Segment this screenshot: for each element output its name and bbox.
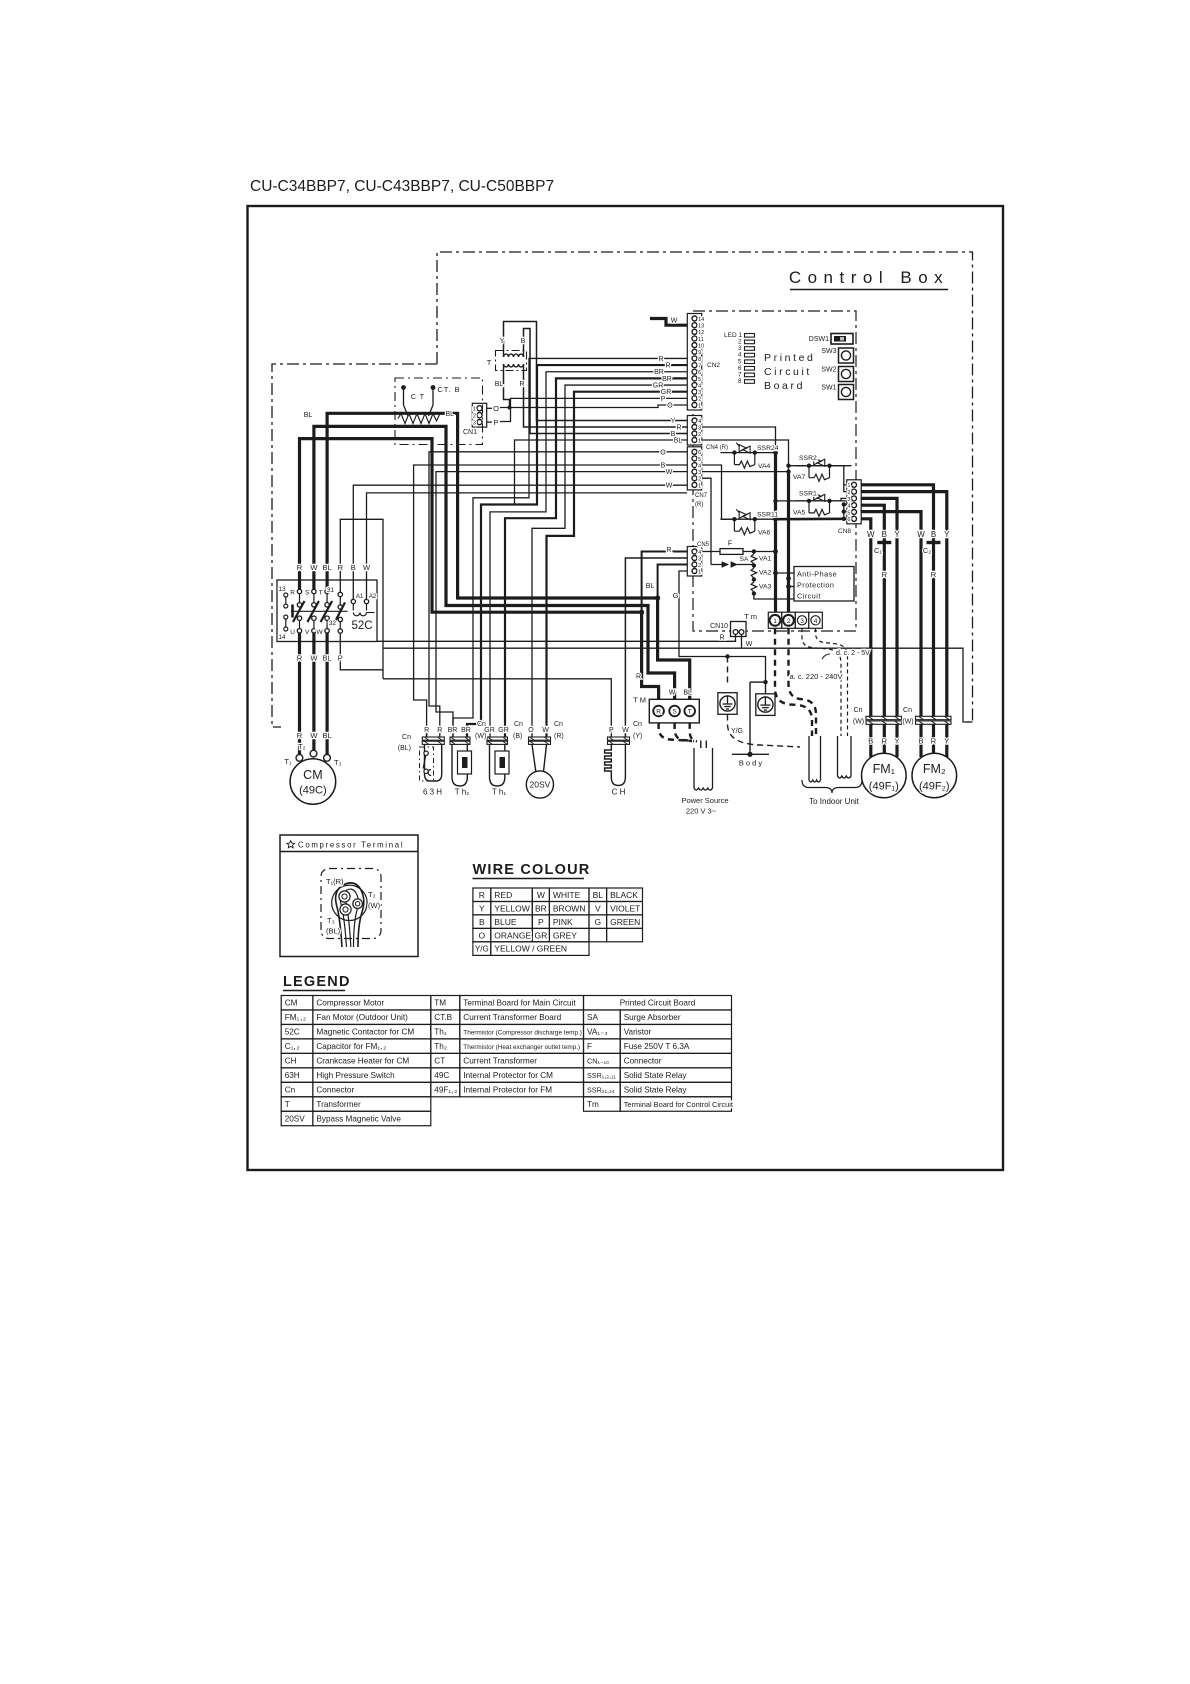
svg-text:R: R bbox=[424, 727, 429, 734]
wire: CN8 pin5 to fan motor lead W bbox=[861, 512, 921, 717]
crankcase heater CH bbox=[605, 737, 630, 786]
svg-text:P: P bbox=[493, 418, 498, 427]
svg-text:3: 3 bbox=[698, 390, 701, 396]
solid state relay SSR11 with varistor VA6 bbox=[720, 509, 776, 535]
wire Y : transformer to CN4 pin4 bbox=[504, 322, 688, 421]
wire W (thick): TM S - 52C bbox=[314, 426, 675, 706]
LEGEND heading bbox=[283, 990, 345, 992]
svg-text:C₁: C₁ bbox=[874, 546, 882, 555]
svg-text:Y/G: Y/G bbox=[475, 945, 489, 954]
svg-text:W: W bbox=[666, 469, 673, 476]
wire O : CN7 pin6 to 63H right bbox=[429, 452, 687, 738]
surge absorber SA bbox=[711, 562, 754, 567]
svg-text:10: 10 bbox=[698, 344, 704, 350]
svg-text:G: G bbox=[594, 917, 601, 927]
wire: CN2 pin3 staircase to component bbox=[547, 392, 688, 738]
WIRE COLOUR heading bbox=[473, 878, 585, 880]
svg-text:4: 4 bbox=[814, 618, 818, 625]
svg-text:(49C): (49C) bbox=[299, 785, 327, 797]
svg-text:Cn: Cn bbox=[633, 721, 642, 728]
svg-text:T: T bbox=[487, 358, 492, 367]
svg-text:W: W bbox=[310, 563, 318, 572]
svg-text:R: R bbox=[656, 709, 661, 716]
brace To Indoor Unit bbox=[802, 780, 862, 793]
svg-text:T h₂: T h₂ bbox=[455, 788, 470, 797]
svg-text:R: R bbox=[519, 381, 524, 388]
svg-text:(W): (W) bbox=[475, 733, 486, 740]
svg-text:High Pressure Switch: High Pressure Switch bbox=[316, 1071, 395, 1080]
svg-text:Compressor Terminal: Compressor Terminal bbox=[298, 841, 404, 850]
svg-text:GREY: GREY bbox=[553, 930, 577, 940]
wire: L2 to anti-phase circuit bbox=[789, 586, 795, 588]
svg-text:B: B bbox=[882, 530, 887, 539]
wire L1 trunk (thick) to Tm terminal 1 bbox=[773, 450, 778, 614]
svg-text:63H: 63H bbox=[285, 1071, 300, 1080]
svg-text:F: F bbox=[587, 1042, 592, 1051]
svg-text:LEGEND: LEGEND bbox=[283, 974, 351, 990]
wire W : CN7 pin3 to Th2 left bbox=[436, 472, 687, 738]
svg-text:G: G bbox=[673, 591, 679, 600]
wire G : CN5 pin1 to earth point bbox=[679, 571, 768, 684]
svg-text:20SV: 20SV bbox=[285, 1114, 306, 1123]
svg-text:VA₁₋₃: VA₁₋₃ bbox=[587, 1028, 608, 1037]
varistor VA1 bbox=[751, 549, 757, 565]
svg-text:3: 3 bbox=[698, 470, 701, 476]
svg-text:W: W bbox=[537, 890, 545, 900]
svg-text:31: 31 bbox=[327, 587, 335, 594]
svg-text:CN5: CN5 bbox=[697, 542, 710, 548]
svg-text:CN1: CN1 bbox=[463, 429, 477, 436]
label d.c. 2-5V bbox=[822, 654, 830, 659]
connector Cn (W) for FM1 bbox=[866, 716, 902, 724]
svg-text:T h₁: T h₁ bbox=[492, 788, 506, 797]
svg-text:Cn: Cn bbox=[514, 721, 523, 728]
svg-text:6: 6 bbox=[698, 370, 701, 376]
terminal board Tm (control circuit) bbox=[768, 612, 822, 628]
svg-text:Fan Motor (Outdoor Unit): Fan Motor (Outdoor Unit) bbox=[316, 1013, 408, 1022]
indoor unit cable 1 bbox=[809, 736, 821, 782]
svg-text:d. c. 2 - 5V: d. c. 2 - 5V bbox=[836, 650, 870, 657]
capacitor C2 bbox=[927, 541, 941, 544]
varistor VA2 bbox=[751, 563, 757, 579]
wire P continues to CH bbox=[383, 679, 611, 738]
svg-text:W: W bbox=[917, 530, 925, 539]
wire W : CN5 pin3 to crankcase heater bbox=[625, 558, 687, 738]
wire B : CN7 pin4 left riser to 63H left bbox=[414, 465, 687, 738]
svg-text:WIRE COLOUR: WIRE COLOUR bbox=[473, 862, 591, 878]
svg-text:BL: BL bbox=[683, 690, 692, 697]
svg-text:6: 6 bbox=[847, 517, 850, 523]
connector Cn (W) for FM2 bbox=[916, 716, 952, 724]
thermistor Th1 bbox=[487, 737, 509, 786]
svg-text:S: S bbox=[672, 709, 677, 716]
varistor VA3 bbox=[751, 577, 757, 595]
wire: SSR11 row to pin6 of CN8 (thick) bbox=[776, 502, 848, 521]
svg-text:BR: BR bbox=[448, 727, 458, 734]
svg-text:Y: Y bbox=[479, 903, 485, 913]
svg-text:5: 5 bbox=[847, 510, 850, 516]
bypass magnetic valve 20SV bbox=[526, 737, 553, 798]
svg-text:32: 32 bbox=[329, 620, 337, 627]
wire: CN8 pin1 to fan motor lead B bbox=[861, 485, 934, 717]
svg-text:R: R bbox=[931, 737, 937, 746]
svg-text:Y/G: Y/G bbox=[731, 728, 743, 735]
svg-text:A2: A2 bbox=[369, 594, 377, 600]
svg-text:Varistor: Varistor bbox=[624, 1028, 652, 1037]
svg-text:2: 2 bbox=[698, 477, 701, 483]
svg-text:R: R bbox=[290, 590, 295, 597]
svg-text:VA7: VA7 bbox=[793, 474, 806, 481]
svg-text:GREEN: GREEN bbox=[610, 917, 640, 927]
svg-text:SSR11: SSR11 bbox=[757, 512, 778, 519]
svg-text:VIOLET: VIOLET bbox=[610, 903, 640, 913]
svg-text:BL: BL bbox=[646, 583, 655, 590]
svg-text:Cn: Cn bbox=[854, 707, 863, 714]
svg-text:O: O bbox=[493, 404, 499, 413]
wire: CN4 pin1 to L2 bbox=[702, 440, 789, 472]
52C wire labels bbox=[0, 0, 1, 1]
svg-text:YELLOW / GREEN: YELLOW / GREEN bbox=[494, 944, 567, 954]
svg-text:YELLOW: YELLOW bbox=[494, 903, 529, 913]
svg-text:Current Transformer Board: Current Transformer Board bbox=[463, 1013, 561, 1022]
svg-text:1: 1 bbox=[473, 407, 476, 413]
svg-text:Current Transformer: Current Transformer bbox=[463, 1057, 537, 1066]
svg-text:Terminal Board for Control Cir: Terminal Board for Control Circuit bbox=[624, 1100, 733, 1109]
wire P : 52C contact 32 to crankcase heater bbox=[340, 633, 383, 670]
wire: SSR2 row to CN8 pin2 bbox=[786, 464, 847, 492]
svg-text:Cn: Cn bbox=[903, 707, 912, 714]
solid state relay SSR24 with varistor VA4 bbox=[720, 443, 776, 469]
fan lead labels W B Y bbox=[0, 0, 1, 1]
svg-text:ORANGE: ORANGE bbox=[494, 930, 531, 940]
compressor motor CM (49C) bbox=[290, 750, 336, 804]
connector CN4 (R) (4-pin) bbox=[687, 416, 701, 446]
wire B : 52C coil A1 to CN7 pin1 bbox=[353, 485, 687, 599]
svg-text:FM₁: FM₁ bbox=[873, 762, 895, 776]
svg-text:V: V bbox=[305, 629, 310, 636]
dashed d.c. cable from Tm 3 bbox=[802, 628, 841, 736]
svg-text:4: 4 bbox=[698, 550, 701, 556]
solid state relay SSR2 with varistor VA7 bbox=[795, 456, 852, 482]
svg-text:Thermistor (Compressor dischar: Thermistor (Compressor discharge temp.) bbox=[463, 1030, 582, 1037]
svg-text:1: 1 bbox=[698, 438, 701, 444]
svg-text:W: W bbox=[542, 727, 549, 734]
svg-text:B: B bbox=[931, 530, 936, 539]
power source cable (dashed leads) bbox=[659, 723, 697, 741]
svg-text:Solid State Relay: Solid State Relay bbox=[624, 1086, 688, 1095]
Control Box boundary (dash-dot) bbox=[272, 252, 973, 727]
svg-text:CN₁₋₁₀: CN₁₋₁₀ bbox=[587, 1057, 609, 1066]
svg-text:O: O bbox=[479, 930, 486, 940]
svg-text:a. c. 220 - 240V: a. c. 220 - 240V bbox=[790, 672, 843, 681]
svg-text:Cn: Cn bbox=[554, 721, 563, 728]
fuse F 250V T 6.3A bbox=[702, 549, 776, 555]
svg-text:Cn: Cn bbox=[402, 734, 411, 741]
power source cable symbol bbox=[694, 741, 713, 791]
svg-text:49F₁, ₂: 49F₁, ₂ bbox=[434, 1086, 457, 1095]
svg-text:R: R bbox=[666, 547, 671, 554]
svg-text:3: 3 bbox=[698, 425, 701, 431]
svg-text:14: 14 bbox=[698, 317, 704, 323]
svg-text:6: 6 bbox=[698, 450, 701, 456]
svg-text:BL: BL bbox=[446, 411, 455, 418]
svg-text:220 V 3~: 220 V 3~ bbox=[686, 807, 717, 816]
svg-text:O: O bbox=[660, 449, 666, 456]
svg-text:Anti-Phase: Anti-Phase bbox=[797, 570, 837, 579]
svg-text:7: 7 bbox=[698, 363, 701, 369]
wire R W BL : 52C to compressor motor bbox=[300, 633, 328, 754]
svg-text:T M: T M bbox=[633, 696, 646, 705]
wire: CN4 pin3 to SSR24/L1 bbox=[702, 427, 776, 453]
capacitor C1 bbox=[877, 541, 891, 544]
Control Box label bbox=[790, 289, 948, 291]
svg-text:BL: BL bbox=[323, 731, 332, 740]
body ground bbox=[732, 752, 769, 757]
svg-text:R: R bbox=[676, 425, 681, 432]
wire W : 52C coil A2 to CN5 pin3 bbox=[367, 493, 688, 599]
svg-text:CH: CH bbox=[285, 1057, 297, 1066]
svg-text:T₂: T₂ bbox=[298, 742, 306, 751]
svg-text:1: 1 bbox=[847, 483, 850, 489]
svg-text:U: U bbox=[290, 629, 295, 636]
svg-text:GR: GR bbox=[534, 930, 547, 940]
svg-text:T₃: T₃ bbox=[327, 916, 335, 925]
svg-text:T: T bbox=[285, 1100, 290, 1109]
DIP switch DSW1 bbox=[831, 334, 853, 345]
svg-text:Tm: Tm bbox=[587, 1100, 599, 1109]
svg-text:SSR1: SSR1 bbox=[799, 491, 817, 498]
svg-text:R: R bbox=[931, 570, 937, 579]
fan motor FM1 (49F1) bbox=[862, 753, 907, 798]
Printed Circuit Board boundary (dash-dot) bbox=[693, 311, 856, 631]
svg-text:B: B bbox=[351, 563, 356, 572]
svg-text:2: 2 bbox=[698, 432, 701, 438]
wire: CN7 pin4... SSR11 feed bbox=[702, 465, 734, 519]
svg-text:BLUE: BLUE bbox=[494, 917, 517, 927]
svg-text:(49F₁): (49F₁) bbox=[869, 781, 899, 793]
compressor terminal detail box bbox=[280, 835, 418, 957]
svg-text:SW1: SW1 bbox=[821, 385, 836, 392]
svg-text:CN2: CN2 bbox=[707, 362, 720, 369]
svg-text:S: S bbox=[305, 590, 310, 597]
svg-text:T₂: T₂ bbox=[368, 890, 376, 899]
svg-text:Surge Absorber: Surge Absorber bbox=[624, 1013, 681, 1022]
wire BL : transformer secondary joins O line bbox=[504, 370, 512, 410]
svg-text:4: 4 bbox=[847, 504, 850, 510]
svg-text:(49F₂): (49F₂) bbox=[919, 781, 950, 793]
svg-text:VA4: VA4 bbox=[758, 463, 771, 470]
svg-text:CN8: CN8 bbox=[838, 528, 851, 535]
svg-text:Connector: Connector bbox=[316, 1086, 354, 1095]
svg-text:O: O bbox=[528, 727, 534, 734]
svg-text:W: W bbox=[746, 641, 753, 648]
svg-text:CT. B: CT. B bbox=[437, 385, 460, 394]
svg-text:(W): (W) bbox=[853, 719, 864, 726]
svg-text:R: R bbox=[882, 570, 888, 579]
svg-text:Printed: Printed bbox=[764, 352, 815, 364]
wire: VA3 bottom to anti-phase circuit bbox=[754, 594, 794, 600]
magnetic contactor 52C bbox=[277, 580, 377, 642]
wire: CN2 pin5 staircase to component bbox=[505, 378, 687, 737]
svg-text:Y: Y bbox=[671, 418, 676, 425]
svg-text:2: 2 bbox=[698, 563, 701, 569]
svg-text:W: W bbox=[669, 690, 676, 697]
svg-text:DSW1: DSW1 bbox=[809, 336, 829, 343]
push button SW1 bbox=[839, 385, 854, 400]
svg-text:SA: SA bbox=[587, 1013, 598, 1022]
svg-text:W: W bbox=[316, 629, 323, 636]
wires into FM2 bbox=[921, 724, 947, 757]
wire BL (thick): TM T - 52C bbox=[327, 413, 690, 706]
wire: CN8 pin2 to fan motor lead Y bbox=[861, 492, 947, 717]
svg-text:4: 4 bbox=[698, 383, 701, 389]
wire: CN5 pin4 R tap joins R run bbox=[642, 552, 687, 613]
svg-text:C T: C T bbox=[411, 394, 425, 401]
svg-text:4: 4 bbox=[698, 463, 701, 469]
svg-text:W: W bbox=[666, 482, 673, 489]
connector CN5 (4-pin) bbox=[687, 547, 701, 577]
svg-text:Control Box: Control Box bbox=[789, 268, 949, 287]
wire Y/G to body ground bbox=[750, 682, 766, 754]
svg-text:BL: BL bbox=[674, 438, 683, 445]
svg-text:W: W bbox=[867, 530, 875, 539]
svg-text:P: P bbox=[538, 917, 544, 927]
svg-text:Internal Protector for FM: Internal Protector for FM bbox=[463, 1086, 552, 1095]
svg-text:14: 14 bbox=[278, 634, 286, 641]
svg-text:13: 13 bbox=[698, 324, 704, 330]
CN2 pin13 W stub wire bbox=[650, 319, 687, 326]
svg-text:CM: CM bbox=[285, 999, 298, 1008]
svg-text:P: P bbox=[338, 654, 343, 663]
Printed Circuit Board label bbox=[0, 0, 1, 1]
svg-text:13: 13 bbox=[278, 586, 286, 593]
svg-text:CN10: CN10 bbox=[710, 623, 728, 630]
svg-text:49C: 49C bbox=[434, 1071, 449, 1080]
svg-text:5: 5 bbox=[698, 377, 701, 383]
svg-text:1: 1 bbox=[698, 403, 701, 409]
wire BL : CN5 pin2 tap joins BL run bbox=[658, 565, 687, 599]
svg-text:Capacitor for FM₁, ₂: Capacitor for FM₁, ₂ bbox=[316, 1042, 386, 1051]
wires into FM1 bbox=[871, 724, 897, 757]
svg-text:CU-C34BBP7, CU-C43BBP7, CU-C50: CU-C34BBP7, CU-C43BBP7, CU-C50BBP7 bbox=[250, 178, 554, 195]
svg-text:1: 1 bbox=[698, 483, 701, 489]
svg-text:BL: BL bbox=[323, 654, 332, 663]
wire BL : CN4 pin1 from left riser bbox=[515, 440, 688, 505]
svg-text:VA3: VA3 bbox=[759, 584, 772, 591]
svg-text:SSR2: SSR2 bbox=[799, 455, 817, 462]
svg-text:W: W bbox=[363, 563, 371, 572]
svg-text:C H: C H bbox=[612, 788, 626, 797]
svg-text:R: R bbox=[479, 890, 485, 900]
svg-text:V: V bbox=[595, 903, 601, 913]
wire: CN7 pin2 down to surge absorber line bbox=[702, 478, 711, 564]
wire P : CN1 pin3 to CN2 pin2 bbox=[487, 398, 688, 422]
svg-text:Circuit: Circuit bbox=[797, 592, 821, 601]
svg-text:R: R bbox=[338, 563, 344, 572]
connector CN1 (3-pin) bbox=[472, 403, 486, 427]
svg-text:O: O bbox=[667, 403, 673, 410]
svg-text:R: R bbox=[882, 737, 888, 746]
transformer T bbox=[496, 351, 527, 371]
svg-text:VA2: VA2 bbox=[759, 570, 772, 577]
svg-text:(BL): (BL) bbox=[326, 927, 341, 936]
fan motor FM2 (49F2) bbox=[912, 753, 957, 798]
svg-text:(BL): (BL) bbox=[398, 745, 411, 752]
thermistor Th2 bbox=[450, 737, 472, 786]
svg-text:R: R bbox=[297, 654, 303, 663]
svg-text:T: T bbox=[319, 590, 323, 597]
svg-text:CT.B: CT.B bbox=[434, 1013, 452, 1022]
wire: CN7 pin3 to L2 node bbox=[702, 469, 791, 473]
svg-text:2: 2 bbox=[847, 490, 850, 496]
text labels layer bbox=[250, 178, 950, 1123]
LED indicators LED1-LED8 bbox=[745, 334, 755, 384]
push button SW3 bbox=[839, 348, 854, 363]
svg-text:1: 1 bbox=[773, 618, 777, 625]
svg-text:GR: GR bbox=[661, 389, 672, 396]
svg-text:T₁: T₁ bbox=[284, 757, 292, 766]
svg-text:2: 2 bbox=[787, 618, 791, 625]
svg-text:PINK: PINK bbox=[553, 917, 573, 927]
connector CN2 (14-pin) bbox=[687, 314, 701, 411]
wire: CN8 pin1 stub bbox=[844, 484, 847, 486]
svg-text:R: R bbox=[437, 727, 442, 734]
svg-text:(R): (R) bbox=[554, 733, 564, 740]
border frame of diagram bbox=[248, 206, 1004, 1170]
svg-text:52C: 52C bbox=[285, 1028, 300, 1037]
svg-text:Th₂: Th₂ bbox=[434, 1042, 447, 1051]
svg-text:6 3 H: 6 3 H bbox=[423, 788, 442, 797]
svg-text:B: B bbox=[479, 917, 485, 927]
compressor terminal drawing bbox=[321, 869, 381, 948]
svg-text:C₂: C₂ bbox=[923, 546, 931, 555]
svg-text:Y: Y bbox=[500, 338, 505, 345]
svg-text:SW2: SW2 bbox=[821, 367, 836, 374]
svg-text:CN7: CN7 bbox=[695, 493, 708, 499]
svg-text:BL: BL bbox=[304, 412, 313, 419]
svg-text:VA6: VA6 bbox=[758, 530, 771, 537]
svg-text:A1: A1 bbox=[356, 594, 364, 600]
high pressure switch 63H bbox=[420, 732, 445, 782]
wire R : 52C to CN10 bbox=[377, 635, 736, 642]
svg-text:11: 11 bbox=[698, 337, 704, 343]
svg-text:FM₂: FM₂ bbox=[923, 762, 946, 776]
svg-text:W: W bbox=[622, 727, 629, 734]
fan motor lead labels B R Y bbox=[0, 0, 1, 1]
svg-text:B: B bbox=[521, 338, 526, 345]
svg-text:R: R bbox=[636, 674, 641, 681]
current transformer CT bbox=[398, 385, 440, 423]
svg-text:Solid State Relay: Solid State Relay bbox=[624, 1071, 688, 1080]
svg-text:Crankcase Heater for CM: Crankcase Heater for CM bbox=[316, 1057, 409, 1066]
svg-text:R: R bbox=[665, 363, 670, 370]
svg-text:1: 1 bbox=[698, 569, 701, 575]
svg-text:(B): (B) bbox=[513, 733, 522, 740]
svg-text:VA1: VA1 bbox=[759, 556, 772, 563]
svg-text:3: 3 bbox=[847, 497, 850, 503]
svg-text:Fuse 250V T 6.3A: Fuse 250V T 6.3A bbox=[624, 1042, 690, 1051]
wire: SSR1 row to CN8 pin3 bbox=[773, 498, 847, 503]
svg-text:R: R bbox=[297, 731, 303, 740]
svg-text:Connector: Connector bbox=[624, 1057, 662, 1066]
svg-text:R: R bbox=[658, 356, 663, 363]
wire: CN8 pin6 to fan motor lead W bbox=[861, 519, 871, 717]
svg-text:W: W bbox=[310, 654, 318, 663]
svg-text:Board: Board bbox=[764, 380, 805, 392]
svg-text:(W): (W) bbox=[368, 901, 381, 910]
svg-text:RED: RED bbox=[494, 890, 512, 900]
svg-text:Terminal Board for Main Circui: Terminal Board for Main Circuit bbox=[463, 999, 576, 1008]
